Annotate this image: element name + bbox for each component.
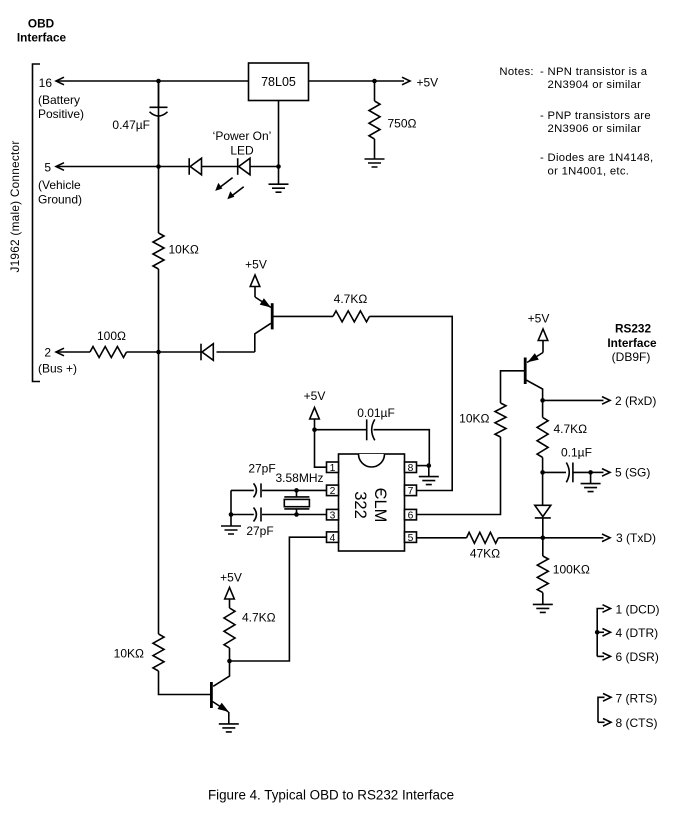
svg-text:27pF: 27pF <box>248 462 275 476</box>
svg-text:7 (RTS): 7 (RTS) <box>616 692 658 706</box>
wire pin3 xtal line <box>231 512 327 517</box>
svg-text:4.7KΩ: 4.7KΩ <box>554 422 588 436</box>
node pin2 label <box>38 346 77 376</box>
resistor 750 ohm <box>369 81 417 159</box>
svg-text:(Battery: (Battery <box>38 93 80 107</box>
wire 10K to pin6 <box>416 437 500 515</box>
resistor 4.7K (Q3 collector) <box>224 608 276 648</box>
label 'Power On' LED <box>213 129 272 158</box>
OBD Interface heading <box>17 17 67 45</box>
node 6 (DSR) label <box>616 650 659 664</box>
svg-text:0.01µF: 0.01µF <box>357 406 395 420</box>
svg-text:5 (SG): 5 (SG) <box>615 465 650 479</box>
svg-text:47KΩ: 47KΩ <box>470 547 500 561</box>
svg-text:J1962 (male) Connector: J1962 (male) Connector <box>8 140 22 272</box>
svg-text:3.58MHz: 3.58MHz <box>275 471 323 485</box>
svg-text:Ground): Ground) <box>38 193 82 207</box>
svg-text:ЄLM: ЄLM <box>371 488 389 523</box>
resistor 4.7K (Q1 base) <box>333 292 370 322</box>
resistor 100 ohm <box>90 329 127 358</box>
wire pin5 line <box>56 163 281 171</box>
resistor 47K (pin5 to TxD) <box>467 532 501 560</box>
ground at pin8 <box>419 477 439 485</box>
svg-text:10KΩ: 10KΩ <box>114 647 144 661</box>
wire 4.7K to Q3 <box>213 648 232 686</box>
LED D3 'Power On' <box>215 158 250 199</box>
ground at 750 ohm <box>365 159 385 167</box>
+5V at ELM supply <box>304 389 326 432</box>
regulator U2 78L05 <box>249 63 309 101</box>
svg-text:-: - <box>540 152 544 164</box>
svg-text:RS232: RS232 <box>615 322 652 336</box>
wire left rail (pin16 node down to NPN base) <box>159 81 211 695</box>
svg-text:0.47µF: 0.47µF <box>112 118 150 132</box>
svg-text:2N3904 or similar: 2N3904 or similar <box>548 79 642 91</box>
IC pin 1 <box>327 462 339 474</box>
svg-text:4 (DTR): 4 (DTR) <box>616 626 659 640</box>
resistor 100K (TxD pulldown) <box>537 538 590 604</box>
node pin16 label <box>38 76 84 121</box>
J1962 connector bracket <box>33 64 41 382</box>
+5V at Q1 <box>245 258 267 298</box>
svg-text:5: 5 <box>408 533 414 544</box>
svg-text:Interface: Interface <box>17 31 67 45</box>
svg-text:2N3906 or similar: 2N3906 or similar <box>548 123 642 135</box>
wire TxD line <box>416 534 610 542</box>
svg-text:8 (CTS): 8 (CTS) <box>616 716 658 730</box>
notes text <box>499 66 653 178</box>
caption Figure 4 <box>208 788 454 803</box>
svg-text:Diodes are 1N4148,: Diodes are 1N4148, <box>548 152 654 164</box>
node 8 (CTS) label <box>616 716 658 730</box>
wire pin2 line <box>56 348 255 356</box>
ground at 78L05 <box>269 184 289 192</box>
wire Q2 base to 10K <box>501 371 526 403</box>
resistor 10K lower (left rail) <box>114 634 164 671</box>
svg-text:+5V: +5V <box>417 76 439 90</box>
svg-text:-: - <box>540 66 544 78</box>
svg-text:Positive): Positive) <box>38 107 84 121</box>
svg-text:6 (DSR): 6 (DSR) <box>616 650 659 664</box>
capacitor 0.1uF <box>540 446 592 483</box>
svg-text:10KΩ: 10KΩ <box>169 243 199 257</box>
svg-text:NPN transistor is a: NPN transistor is a <box>548 66 648 78</box>
svg-text:7: 7 <box>408 486 414 497</box>
wire pin2 diode to Q1 collector <box>255 323 271 352</box>
wire RTS-CTS bracket <box>598 694 611 727</box>
diode D1 (Bus+ series diode) <box>201 344 213 361</box>
svg-text:10KΩ: 10KΩ <box>459 412 489 426</box>
wire DCD-DTR-DSR bracket <box>595 605 611 661</box>
svg-text:or 1N4001, etc.: or 1N4001, etc. <box>548 166 630 178</box>
IC label ELM 322 <box>351 488 389 523</box>
resistor 10K (Q2 base) <box>459 403 506 437</box>
wire SG ground and arrow <box>588 469 610 484</box>
svg-text:16: 16 <box>39 76 53 90</box>
IC pin 3 <box>327 509 339 521</box>
svg-text:4.7KΩ: 4.7KΩ <box>242 611 276 625</box>
wire xtal ground rail <box>229 490 234 525</box>
transistor Q1 PNP 2N3906 <box>255 297 272 329</box>
wire 4.7K to ELM pin7 <box>370 316 453 490</box>
resistor 4.7K (RxD pullup) <box>537 400 587 472</box>
node 4 (DTR) label <box>616 626 659 640</box>
wire 78L05 output to +5V <box>309 77 411 85</box>
node pin5 label <box>38 161 82 207</box>
ground at SG cap <box>581 484 601 492</box>
resistor 10K upper (left rail) <box>153 233 199 269</box>
wire Q1 base to 4.7K <box>272 315 333 317</box>
svg-text:PNP transistors are: PNP transistors are <box>548 110 651 122</box>
svg-text:(Bus +): (Bus +) <box>38 362 77 376</box>
svg-text:3 (TxD): 3 (TxD) <box>616 531 656 545</box>
svg-text:Notes:: Notes: <box>499 66 533 78</box>
wire SG node to diode <box>542 472 544 505</box>
svg-text:8: 8 <box>408 463 414 474</box>
capacitor 27pF lower <box>246 508 273 539</box>
RS232 Interface heading <box>607 322 657 365</box>
wire Q2 collector <box>525 380 545 403</box>
wire pin8 to ground <box>416 463 431 476</box>
wire +5V node to pin1 <box>315 430 327 468</box>
svg-text:1: 1 <box>330 463 336 474</box>
svg-text:100Ω: 100Ω <box>97 329 126 343</box>
svg-text:LED: LED <box>230 144 254 158</box>
svg-text:3: 3 <box>330 510 336 521</box>
transistor Q3 NPN 2N3904 <box>211 682 228 724</box>
+5V at Q3 <box>220 571 242 609</box>
J1962 (male) Connector label <box>8 140 22 272</box>
svg-text:2: 2 <box>330 486 336 497</box>
node 3 (TxD) label <box>616 531 656 545</box>
ground at Q3 emitter <box>219 724 239 732</box>
svg-text:1 (DCD): 1 (DCD) <box>616 602 660 616</box>
svg-text:6: 6 <box>408 510 414 521</box>
svg-text:2: 2 <box>44 346 51 360</box>
diode D4 (TxD clamp) <box>535 505 551 538</box>
node +5V output label <box>417 76 439 90</box>
wire 78L05 ground pin <box>278 101 280 185</box>
svg-text:-: - <box>540 110 544 122</box>
transistor Q2 PNP 2N3906 <box>525 353 543 385</box>
capacitor 27pF upper <box>248 462 275 498</box>
wire pin2 xtal line <box>231 488 327 493</box>
capacitor 0.01uF <box>315 406 430 466</box>
node 7 (RTS) label <box>616 692 658 706</box>
IC pin 6 <box>405 509 417 521</box>
wire pin4 to Q3 collector <box>230 537 327 661</box>
IC pin 7 <box>405 485 417 497</box>
svg-text:+5V: +5V <box>304 389 326 403</box>
svg-text:Interface: Interface <box>607 336 657 350</box>
node 2 (RxD) label <box>615 394 656 408</box>
IC pin 5 <box>405 532 417 544</box>
ground at 100K <box>533 604 553 612</box>
node 5 (SG) label <box>615 465 650 479</box>
node 1 (DCD) label <box>616 602 660 616</box>
ground at xtal caps <box>221 526 241 534</box>
capacitor 0.47uF <box>112 81 167 167</box>
IC pin 4 <box>327 532 339 544</box>
svg-text:322: 322 <box>351 491 369 519</box>
wire RxD line <box>543 397 610 405</box>
svg-text:‘Power On’: ‘Power On’ <box>213 129 272 143</box>
crystal X1 3.58MHz <box>275 471 323 515</box>
IC U1 ELM322 body <box>339 454 405 551</box>
svg-text:OBD: OBD <box>28 17 55 31</box>
svg-text:+5V: +5V <box>528 312 550 326</box>
svg-text:2 (RxD): 2 (RxD) <box>615 394 656 408</box>
svg-text:4.7KΩ: 4.7KΩ <box>334 292 368 306</box>
svg-text:(Vehicle: (Vehicle <box>38 178 81 192</box>
svg-text:78L05: 78L05 <box>261 75 296 89</box>
svg-text:(DB9F): (DB9F) <box>612 350 651 364</box>
svg-text:+5V: +5V <box>245 258 267 272</box>
wire pin16 to 78L05 <box>56 77 249 85</box>
svg-text:5: 5 <box>44 161 51 175</box>
svg-text:0.1µF: 0.1µF <box>561 446 592 460</box>
IC pin 2 <box>327 485 339 497</box>
svg-text:100KΩ: 100KΩ <box>553 563 590 577</box>
svg-text:+5V: +5V <box>220 571 242 585</box>
diode D2 (pin5 series diode) <box>189 158 201 175</box>
IC pin 8 <box>405 462 417 474</box>
svg-text:Figure 4. Typical OBD to RS232: Figure 4. Typical OBD to RS232 Interface <box>208 788 454 803</box>
svg-text:4: 4 <box>330 533 336 544</box>
+5V at Q2 <box>528 312 550 353</box>
svg-text:27pF: 27pF <box>246 524 273 538</box>
svg-text:750Ω: 750Ω <box>388 117 417 131</box>
